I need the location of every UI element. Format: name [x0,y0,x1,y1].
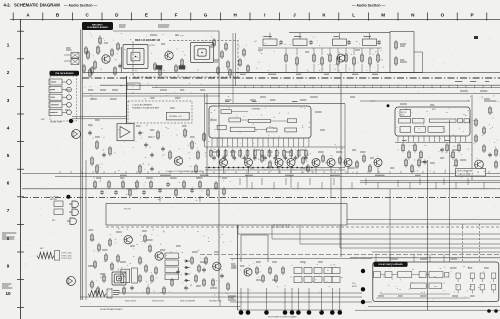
svg-text:CPA JACK BOARD: CPA JACK BOARD [55,72,74,75]
svg-text:— Audio Section —: — Audio Section — [352,3,386,7]
svg-text:MIC: MIC [40,248,44,250]
svg-text:I: I [264,13,265,18]
svg-text:NORMAL (1:1): NORMAL (1:1) [169,115,182,118]
svg-text:ETC: ETC [432,109,437,111]
svg-text:MIC: MIC [41,119,45,121]
svg-text:REC LR BOARD 1/2: REC LR BOARD 1/2 [135,38,161,42]
svg-text:METU: METU [352,286,358,288]
svg-text:BOTTOM INC/NR: BOTTOM INC/NR [458,171,474,173]
svg-text:J: J [293,13,296,18]
svg-text:PS 234: PS 234 [124,209,131,211]
svg-text:M: M [381,13,385,18]
svg-text:5: 5 [7,153,10,158]
svg-text:SCHEMATIC DIAGRAM: SCHEMATIC DIAGRAM [14,3,60,8]
svg-text:H: H [234,13,238,18]
svg-text:PLAYBACK BOARD: PLAYBACK BOARD [87,26,108,29]
svg-text:B: B [56,13,60,18]
svg-text:A: A [26,13,30,18]
svg-text:S019 COUNTER: S019 COUNTER [180,301,196,303]
svg-text:DC/DC: DC/DC [149,45,156,47]
svg-text:N: N [411,13,415,18]
svg-text:2: 2 [7,70,10,75]
svg-text:4: 4 [7,125,10,130]
svg-text:W REC/PB AMP BOARD: W REC/PB AMP BOARD [100,308,123,311]
svg-text:W SYSTEM CONTROL BOARD: W SYSTEM CONTROL BOARD [268,316,297,319]
svg-text:7: 7 [7,208,10,213]
svg-text:TYPE 1 (US): TYPE 1 (US) [61,253,72,255]
svg-text:METER: METER [50,199,58,201]
svg-text:TYPE 2 (US): TYPE 2 (US) [61,255,72,257]
svg-text:D: D [115,13,119,18]
svg-text:C-3021 ALIGNMENT: C-3021 ALIGNMENT [132,104,153,107]
svg-text:O: O [441,13,445,18]
svg-text:MIC: MIC [52,220,56,222]
svg-text:1: 1 [7,43,10,48]
svg-text:F: F [175,13,178,18]
svg-text:PLAY BS SWITCH: PLAY BS SWITCH [458,173,474,176]
svg-text:SW: SW [401,114,404,116]
svg-text:DOLBY SWITCH BOARD: DOLBY SWITCH BOARD [378,263,403,266]
svg-text:G: G [204,13,208,18]
svg-text:6: 6 [7,181,10,186]
svg-text:TYPE 3 (US): TYPE 3 (US) [61,258,72,260]
svg-text:P: P [470,13,473,18]
svg-text:10: 10 [5,291,11,296]
svg-text:— Audio Section —: — Audio Section — [64,3,98,7]
svg-text:L: L [352,13,355,18]
svg-text:3: 3 [7,98,10,103]
svg-text:E: E [145,13,148,18]
svg-text:9: 9 [7,263,10,268]
svg-text:C: C [86,13,90,18]
svg-text:1000 OS/GB: 1000 OS/GB [126,189,138,191]
svg-text:OVERALL: OVERALL [251,108,261,111]
svg-text:PLAYBACK EQUALIZER AMP: PLAYBACK EQUALIZER AMP [132,107,160,110]
svg-text:4-2.: 4-2. [4,3,11,8]
svg-text:S005 G/U/G: S005 G/U/G [125,301,136,303]
svg-text:W 1): W 1) [352,283,356,285]
svg-text:DIGITAL TIMER: DIGITAL TIMER [50,121,63,124]
svg-text:S013 DOLBY: S013 DOLBY [152,301,165,303]
svg-text:K: K [322,13,326,18]
